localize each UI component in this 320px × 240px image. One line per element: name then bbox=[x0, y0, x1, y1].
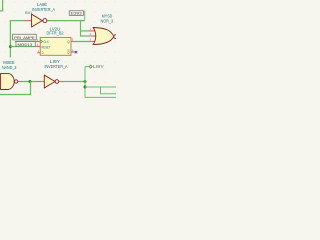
wire Q to NOR in3 bbox=[75, 41, 89, 43]
pin stub NOR in2 bbox=[89, 35, 96, 37]
svg-text:INVERTER_A: INVERTER_A bbox=[45, 64, 68, 69]
net label LI9Y flag bbox=[85, 64, 104, 69]
wire CLK net bbox=[15, 41, 36, 43]
wire RESET net bbox=[10, 46, 35, 48]
node junction lower bbox=[84, 86, 87, 89]
svg-text:INVERTER_A: INVERTER_A bbox=[32, 7, 55, 12]
pin stub U5 out bbox=[58, 81, 63, 83]
NOR body bbox=[93, 28, 114, 45]
pin stub D bbox=[37, 52, 40, 54]
grid dots bbox=[5, 2, 116, 93]
wire to bottom left bbox=[0, 82, 31, 95]
NOR bubble bbox=[114, 35, 118, 39]
svg-text:CLK: CLK bbox=[43, 40, 49, 44]
node junction at vertical bbox=[84, 80, 87, 83]
wire U5 output net bbox=[63, 81, 85, 83]
pin stub QB bbox=[71, 51, 76, 53]
wire bottom right bbox=[85, 96, 116, 98]
pin stub U1 out bbox=[48, 20, 50, 22]
wire vertical right net bbox=[84, 67, 86, 98]
svg-text:LI9Y: LI9Y bbox=[93, 64, 104, 69]
svg-text:RESET: RESET bbox=[41, 45, 50, 49]
label PRI_AMPE box bbox=[13, 34, 37, 40]
svg-text:E393: E393 bbox=[71, 11, 82, 15]
pin stub CLK bbox=[36, 41, 41, 43]
node junction NAND-inverter bbox=[28, 80, 31, 83]
wire right edge y87 bbox=[85, 86, 116, 88]
wire top-left corner bbox=[0, 0, 3, 11]
clock triangle bbox=[40, 40, 42, 43]
wire vertical to NOR in2 bbox=[81, 21, 90, 36]
wire U1 output net bbox=[50, 20, 85, 22]
wire NOR input 1 bbox=[81, 30, 89, 32]
svg-text:MOD13: MOD13 bbox=[18, 43, 33, 47]
label MOD13 box bbox=[16, 42, 35, 47]
wire NAND out net bbox=[22, 81, 34, 83]
wire branch down bbox=[101, 87, 117, 94]
pin stub NOR in3 bbox=[89, 41, 96, 43]
wire inverter U1 input bbox=[10, 20, 23, 22]
svg-text:NOR_3: NOR_3 bbox=[101, 18, 114, 23]
pin stub U5 in bbox=[34, 81, 44, 83]
background bbox=[0, 0, 116, 99]
no-connect X on QB bbox=[75, 51, 78, 53]
pin stub NOR in1 bbox=[88, 30, 95, 32]
pin stub Q bbox=[71, 41, 76, 43]
label E393 bbox=[69, 11, 85, 20]
svg-text:DFFR_B2: DFFR_B2 bbox=[47, 31, 65, 36]
pin stub RESET bbox=[36, 46, 41, 48]
wire vertical left bus bbox=[9, 20, 11, 57]
pin stub NAND out bbox=[18, 81, 22, 83]
node D junction bbox=[9, 45, 12, 48]
pin stub U1 in bbox=[23, 20, 32, 22]
svg-text:NAND_3: NAND_3 bbox=[2, 65, 17, 70]
svg-text:PRI_AMPE: PRI_AMPE bbox=[14, 36, 35, 40]
